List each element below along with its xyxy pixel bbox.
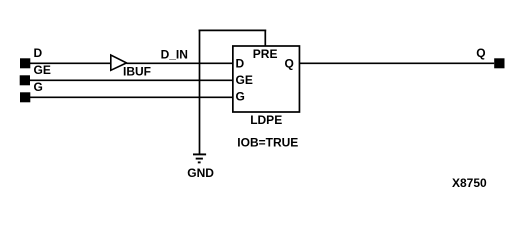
latch LDPE body: [233, 46, 300, 112]
input pad D: [20, 58, 30, 68]
svg-text:GE: GE: [236, 73, 253, 87]
svg-text:D: D: [236, 57, 245, 71]
input pad GE: [20, 75, 30, 85]
wire GE pad to latch GE pin: [30, 79, 233, 81]
svg-text:IOB=TRUE: IOB=TRUE: [237, 136, 298, 150]
svg-text:GND: GND: [187, 166, 214, 180]
input pad G: [20, 92, 30, 102]
svg-text:Q: Q: [285, 56, 294, 70]
svg-text:Q: Q: [476, 46, 485, 60]
wire PRE drop into latch top: [264, 30, 266, 47]
svg-text:GE: GE: [34, 63, 51, 77]
output pad Q: [494, 58, 504, 68]
ground symbol: [193, 154, 206, 162]
svg-text:LDPE: LDPE: [250, 113, 282, 127]
wire D pad to IBUF input: [30, 62, 111, 64]
wire horizontal top of PRE loop: [199, 29, 267, 31]
svg-text:PRE: PRE: [253, 47, 278, 61]
buffer IBUF: [111, 55, 127, 70]
svg-text:D: D: [34, 46, 43, 60]
svg-text:IBUF: IBUF: [123, 65, 151, 79]
svg-text:G: G: [236, 89, 245, 103]
svg-text:G: G: [34, 80, 43, 94]
wire vertical from PRE loop down to ground: [199, 30, 201, 155]
wire D_IN from IBUF output to latch D pin: [127, 62, 233, 64]
wire Q latch output to pad: [299, 62, 494, 64]
svg-text:D_IN: D_IN: [161, 48, 188, 62]
wire G pad to latch G pin: [30, 96, 233, 98]
svg-text:X8750: X8750: [452, 176, 487, 190]
